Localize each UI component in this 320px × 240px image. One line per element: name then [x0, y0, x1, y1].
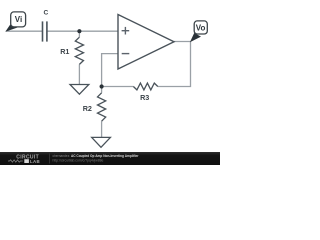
- wire node B to R3 left: [102, 86, 134, 88]
- resistor R1: [75, 37, 83, 64]
- svg-text:Vo: Vo: [196, 23, 206, 32]
- op-amp + pin mark: [122, 27, 130, 35]
- svg-text:Vi: Vi: [15, 15, 22, 24]
- flag Vi box: [11, 12, 26, 27]
- op-amp U1: [118, 15, 174, 70]
- flag Vo box: [194, 21, 207, 34]
- wire op-amp - input to node B: [102, 54, 118, 87]
- node B junction dot: [100, 84, 104, 88]
- wire R1 bottom to ground: [78, 64, 80, 84]
- capacitor C: [43, 21, 47, 41]
- footer separator: [49, 154, 51, 164]
- resistor R2: [98, 93, 106, 121]
- footer CircuitLab logo: resistor squiggle: [8, 160, 23, 162]
- wire R3 right to output corner: [158, 42, 191, 87]
- ground (R2): [92, 137, 111, 147]
- svg-text:LAB: LAB: [30, 159, 40, 164]
- flag Vo tail: [190, 33, 201, 42]
- footer bar: [0, 152, 220, 165]
- wire R2 bottom to ground: [101, 121, 103, 137]
- node A junction dot: [77, 29, 81, 33]
- wire Vi to capacitor C: [6, 30, 43, 32]
- resistor R3: [133, 83, 157, 90]
- svg-text:chernandez: AC Coupled Op Amp: chernandez: AC Coupled Op Amp Non-Invert…: [53, 154, 140, 158]
- svg-text:http://circuitlab.com/c/7pq4vj: http://circuitlab.com/c/7pq4vjw88e: [53, 159, 104, 163]
- wire node B down to R2: [101, 87, 103, 93]
- ground (R1): [70, 85, 89, 95]
- wire node A down to R1: [78, 31, 80, 37]
- svg-text:R3: R3: [140, 93, 149, 102]
- flag Vi tail: [5, 23, 18, 32]
- op-amp - pin mark: [122, 53, 130, 55]
- wire op-amp output to Vo corner: [174, 41, 191, 43]
- footer CircuitLab logo: block: [24, 159, 29, 163]
- svg-text:C: C: [44, 10, 49, 17]
- svg-text:R2: R2: [83, 104, 92, 113]
- wire capacitor C to op-amp + input: [47, 30, 118, 32]
- svg-text:R1: R1: [60, 47, 69, 56]
